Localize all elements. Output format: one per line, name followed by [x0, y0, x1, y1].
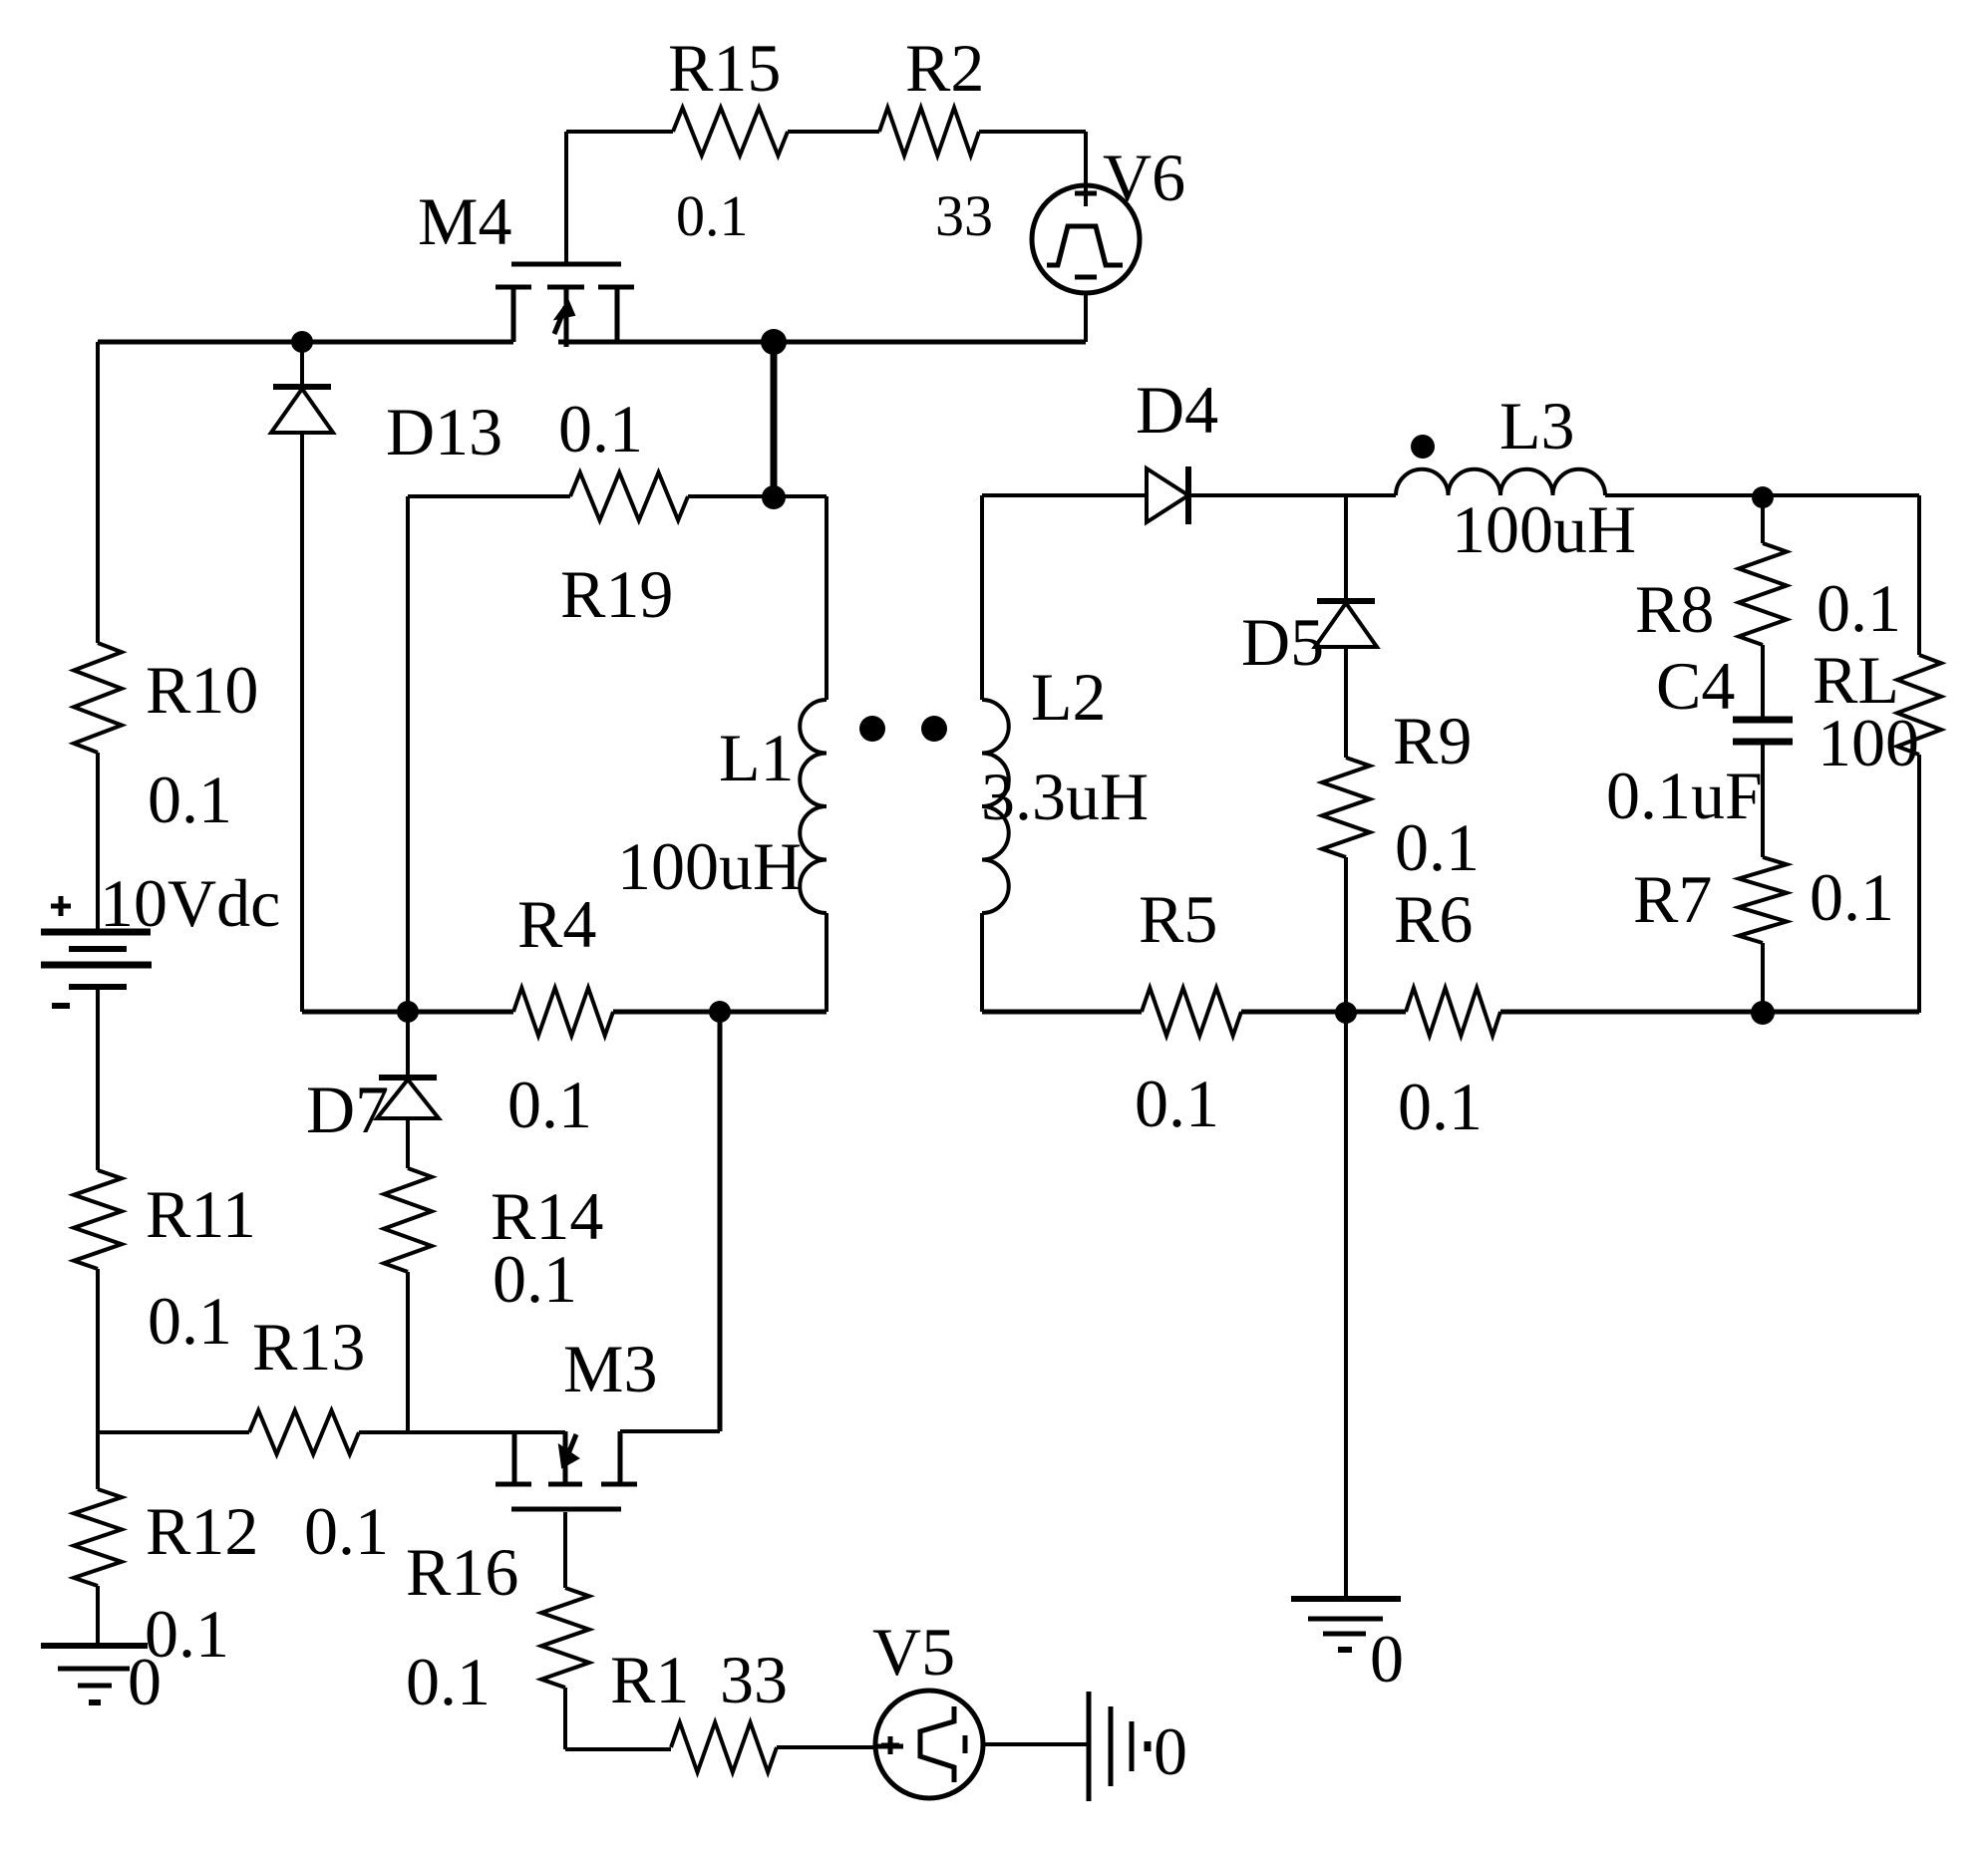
svg-text:3.3uH: 3.3uH	[981, 759, 1149, 834]
svg-text:0.1: 0.1	[148, 762, 232, 837]
svg-text:0.1: 0.1	[148, 1283, 232, 1359]
svg-text:100uH: 100uH	[1452, 491, 1636, 567]
svg-text:R6: R6	[1394, 881, 1473, 957]
svg-text:0.1: 0.1	[1135, 1066, 1219, 1141]
svg-text:R9: R9	[1393, 703, 1472, 778]
svg-text:0.1: 0.1	[558, 391, 643, 466]
svg-text:R13: R13	[252, 1309, 365, 1385]
svg-text:C4: C4	[1656, 648, 1735, 724]
svg-text:0: 0	[1370, 1621, 1404, 1697]
svg-text:R16: R16	[406, 1534, 518, 1610]
svg-text:R19: R19	[560, 556, 673, 632]
svg-text:M3: M3	[563, 1331, 657, 1406]
svg-text:0.1: 0.1	[1398, 1069, 1483, 1144]
svg-text:L2: L2	[1031, 659, 1107, 735]
svg-text:0.1: 0.1	[1395, 809, 1480, 885]
svg-text:0.1: 0.1	[676, 183, 749, 248]
svg-text:D5: D5	[1241, 604, 1324, 680]
svg-text:V5: V5	[872, 1614, 955, 1690]
svg-text:10Vdc: 10Vdc	[100, 865, 280, 941]
svg-text:R4: R4	[517, 886, 596, 962]
svg-text:33: 33	[720, 1642, 788, 1717]
svg-text:R15: R15	[668, 30, 781, 106]
svg-text:D4: D4	[1136, 372, 1218, 448]
svg-text:100: 100	[1818, 705, 1919, 780]
svg-text:R5: R5	[1139, 881, 1217, 957]
svg-text:0.1: 0.1	[304, 1493, 389, 1569]
svg-text:R12: R12	[146, 1493, 258, 1569]
svg-text:0.1: 0.1	[493, 1241, 577, 1317]
svg-text:M4: M4	[418, 183, 511, 259]
svg-text:R11: R11	[146, 1176, 256, 1252]
svg-text:R10: R10	[146, 652, 258, 728]
svg-text:100uH: 100uH	[617, 828, 802, 904]
svg-text:V6: V6	[1103, 140, 1185, 215]
svg-text:R7: R7	[1633, 861, 1712, 937]
svg-text:33: 33	[935, 183, 993, 248]
svg-text:0.1: 0.1	[1817, 570, 1901, 646]
svg-text:L3: L3	[1499, 388, 1575, 463]
svg-text:0: 0	[1154, 1713, 1187, 1789]
svg-text:R2: R2	[905, 30, 984, 106]
svg-text:0.1: 0.1	[406, 1644, 491, 1719]
svg-text:0.1: 0.1	[1810, 859, 1894, 935]
svg-text:D7: D7	[306, 1072, 389, 1147]
svg-text:0.1: 0.1	[507, 1067, 592, 1142]
svg-text:0.1uF: 0.1uF	[1606, 758, 1763, 833]
svg-text:D13: D13	[386, 394, 502, 469]
svg-text:L1: L1	[719, 720, 795, 795]
svg-text:R8: R8	[1635, 571, 1714, 647]
svg-text:R1: R1	[610, 1642, 689, 1717]
svg-text:0: 0	[128, 1644, 162, 1719]
